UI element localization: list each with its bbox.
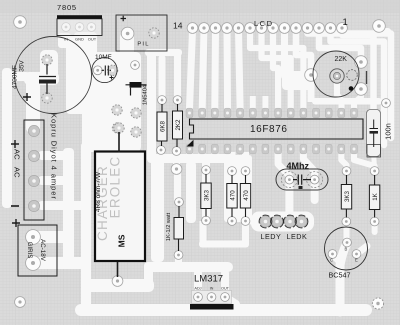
diode LED3 outline bbox=[284, 215, 297, 228]
svg-text:IN: IN bbox=[210, 287, 214, 291]
wire: LCD pin 5 gamma to pot bbox=[296, 30, 311, 74]
wire: riser to BC547 bbox=[340, 244, 347, 313]
wire: crystal right pad down bbox=[311, 182, 319, 200]
regulator 7805 pad IN bbox=[62, 23, 71, 32]
wire: horizontal y=244 bbox=[199, 241, 249, 248]
wire: BC547 collector branch bbox=[333, 255, 340, 262]
capacitor 4700MF pad top bbox=[42, 55, 52, 65]
wire: vertical right of 4R8 box bbox=[151, 155, 164, 262]
svg-text:PIL: PIL bbox=[137, 42, 149, 48]
wire: LCD pin 8 nested corner bbox=[262, 30, 291, 108]
resistor 4R8 top lead bbox=[118, 132, 120, 153]
regulator 7805 pad GND bbox=[75, 23, 84, 32]
resistor 2K2 outline bbox=[173, 111, 183, 139]
wire: LCD pin 2 gamma bbox=[331, 30, 385, 145]
svg-text:Kopru Diyot 4 amper: Kopru Diyot 4 amper bbox=[50, 113, 59, 200]
svg-text:4700MF: 4700MF bbox=[12, 65, 19, 89]
wire: LCD pin 14 down to IC pin bbox=[190, 30, 193, 108]
connector GIRIS box outline bbox=[18, 225, 57, 276]
IC 16F876 outline with notch bbox=[190, 119, 364, 139]
capacitor 10MF plus mark bbox=[110, 76, 114, 80]
node: lone pad top-left bbox=[14, 16, 27, 29]
connector LCD pads pin14..pin1 bbox=[187, 23, 347, 34]
wire: LED row link 470b bbox=[248, 218, 263, 225]
wire: crystal left pad down bbox=[285, 182, 293, 213]
diode LED1 outline bbox=[259, 215, 272, 228]
resistor 2K2 leads bbox=[176, 104, 179, 147]
potentiometer 22K index dot bbox=[349, 86, 354, 91]
wire: IC pin stubs down to band bbox=[186, 149, 193, 160]
wire: IC pin 22 stub bbox=[262, 96, 268, 110]
transistor BC547 outline bbox=[325, 227, 368, 270]
connector GIRIS pad 1 bbox=[26, 230, 41, 245]
wire: IC pin to crystal right bbox=[303, 151, 314, 177]
wire: 470a feed bbox=[229, 152, 236, 171]
svg-text:6K8: 6K8 bbox=[160, 120, 167, 132]
diode LED2 pad bbox=[271, 216, 282, 227]
resistor 1K outline bbox=[369, 185, 379, 210]
svg-text:35V: 35V bbox=[19, 60, 26, 72]
wire: bus66 to GIRIS pad2 bbox=[28, 257, 86, 269]
resistor 470a pad bottom bbox=[228, 217, 237, 226]
resistor 3K3a leads bbox=[205, 174, 207, 217]
wire: 3K3a bottom down bbox=[200, 221, 207, 244]
capacitor 100n bottom pad box bbox=[367, 145, 381, 158]
svg-text:1: 1 bbox=[343, 17, 348, 28]
wire: 1K bottom stub bbox=[372, 221, 378, 232]
diode LED2 outline bbox=[271, 215, 284, 228]
svg-text:2K2: 2K2 bbox=[175, 119, 182, 131]
svg-text:AC: AC bbox=[13, 167, 22, 178]
potentiometer 22K wiper ring bbox=[330, 69, 344, 83]
wire: LCD pin 12 down bbox=[211, 30, 219, 108]
resistor 3K3b outline bbox=[341, 185, 351, 210]
wire: 1K-1/2watt bottom link bbox=[175, 255, 182, 267]
wire: right corner pad down right edge bbox=[379, 26, 388, 31]
wire: LCD pin 9 nested corner bbox=[250, 30, 303, 108]
svg-text:OUT: OUT bbox=[221, 287, 230, 291]
wire: horizontal under pot bbox=[312, 98, 382, 105]
resistor 470b pad bottom bbox=[241, 217, 250, 226]
svg-text:4Mhz: 4Mhz bbox=[287, 161, 310, 171]
svg-text:1K-1/2 watt: 1K-1/2 watt bbox=[166, 212, 172, 241]
wire: AC bus x=66 bbox=[63, 148, 74, 264]
resistor 2K2 pad bottom bbox=[172, 147, 181, 156]
wire: LED pair link bbox=[280, 218, 289, 225]
wire: bridge pad stub row 4 bbox=[38, 201, 88, 210]
svg-text:100n: 100n bbox=[384, 123, 393, 140]
node: lone pad bottom-left bbox=[15, 297, 26, 308]
wire: LCD pin 6 to pot band bbox=[281, 30, 288, 76]
svg-text:GND: GND bbox=[75, 37, 84, 42]
node: lone pad bottom-right bbox=[372, 298, 383, 309]
svg-text:EROLEC: EROLEC bbox=[108, 156, 123, 219]
svg-text:OUT: OUT bbox=[88, 37, 97, 42]
crystal 4Mhz pad right bbox=[310, 175, 319, 184]
wire: bus x=81 bbox=[81, 142, 91, 314]
node: pour pad C bbox=[131, 108, 141, 118]
wire: vertical trace inside big cap circle bbox=[66, 36, 91, 114]
resistor 6K8 leads bbox=[161, 104, 164, 146]
wire: 100n bottom to 1K top bbox=[374, 154, 375, 170]
wire: IC pin 23 stub bbox=[250, 96, 256, 110]
wire: pot wiper to IC bbox=[337, 80, 342, 108]
wire: LCD pin 13 down bbox=[202, 30, 204, 108]
wire: L-arm vertical down to bridge + bbox=[26, 78, 40, 133]
svg-text:14: 14 bbox=[173, 21, 183, 31]
wire: top connector to resistor feeds bbox=[145, 49, 182, 56]
resistor 1K-1/2watt outline bbox=[174, 218, 184, 240]
wire: power pour right of big cap bbox=[82, 52, 141, 152]
regulator 7805 pad OUT bbox=[87, 23, 96, 32]
svg-text:LM317: LM317 bbox=[194, 274, 223, 285]
svg-text:AC-18V: AC-18V bbox=[39, 239, 46, 262]
wire: band into pot left pad bbox=[282, 71, 313, 90]
capacitor 4700MF circle outline bbox=[15, 37, 92, 114]
svg-text:LEDK: LEDK bbox=[287, 232, 308, 241]
svg-text:IN: IN bbox=[64, 37, 68, 42]
wire: white band behind LEDs bbox=[251, 212, 314, 232]
crystal 4Mhz pad rings bbox=[281, 172, 297, 188]
wire: 470b feed bbox=[242, 152, 249, 171]
battery PIL box outline bbox=[116, 15, 167, 51]
wire: horizontal band to LM317 area bbox=[144, 262, 233, 272]
wire: L-arm horizontal to cap bbox=[24, 72, 59, 85]
wire: bus52 to GIRIS pad1 bbox=[26, 231, 74, 243]
svg-text:B: B bbox=[345, 247, 348, 252]
crystal 4Mhz pad left bbox=[285, 175, 294, 184]
resistor 2K2 pad top bbox=[173, 96, 182, 105]
resistor 6K8 pad top bbox=[158, 96, 167, 105]
connector GIRIS pad 2 bbox=[26, 256, 41, 271]
resistor 3K3b pad top bbox=[342, 167, 351, 176]
svg-text:4R8 ohm-7/W: 4R8 ohm-7/W bbox=[95, 171, 102, 212]
wire: 470b bottom down bbox=[242, 224, 249, 244]
wire: PIL pad down bbox=[120, 33, 134, 65]
battery PIL pad - bbox=[149, 28, 159, 38]
potentiometer 22K pad bottom-right bbox=[355, 83, 368, 96]
diode LED1 pad bbox=[260, 216, 271, 227]
left edge plus mark bbox=[11, 140, 19, 148]
svg-text:MS: MS bbox=[117, 234, 127, 247]
wire: band to 3K3a bbox=[203, 158, 210, 169]
resistor 470b outline bbox=[240, 184, 250, 209]
capacitor 100n pad bottom bbox=[369, 147, 378, 156]
node: pour pad D bbox=[112, 123, 122, 133]
capacitor 10MF symbol bbox=[102, 66, 112, 76]
svg-text:10MF: 10MF bbox=[95, 54, 112, 61]
svg-text:BC547: BC547 bbox=[329, 271, 351, 280]
resistor 3K3a outline bbox=[201, 183, 211, 209]
wire: LCD pin 4 gamma bbox=[308, 30, 392, 138]
bridge rectifier pads bbox=[28, 125, 39, 136]
capacitor 4700MF pad bottom bbox=[42, 93, 52, 103]
node: pour pad E bbox=[131, 127, 141, 137]
capacitor 100n pad top bbox=[369, 112, 378, 121]
IC 16F876 pin1 triangle bbox=[187, 140, 194, 147]
resistor 470b pad top bbox=[241, 167, 250, 176]
wire: LCD pin 7 nested corner bbox=[273, 30, 278, 108]
resistor 3K3a pad bottom bbox=[202, 216, 211, 225]
resistor 1K pad top bbox=[370, 167, 379, 176]
resistor 470a pad top bbox=[228, 167, 237, 176]
transistor BC547 pad B bbox=[343, 238, 352, 247]
regulator LM317 pads bbox=[192, 291, 232, 304]
IC 16F876 top row pads pins 28..15 bbox=[186, 108, 357, 118]
node: pour pad B bbox=[112, 105, 122, 115]
wire: 7805 GND/OUT pads down bbox=[74, 32, 97, 59]
transistor BC547 pad E bbox=[352, 250, 361, 259]
svg-text:22K: 22K bbox=[335, 56, 348, 63]
potentiometer 22K pad top-right bbox=[355, 56, 368, 69]
wire: vertical behind 3K3a bbox=[202, 158, 210, 221]
wire: bridge pad stub row 3 bbox=[38, 176, 72, 185]
wire: pot left pad down bbox=[308, 74, 315, 102]
wire: LCD pin 11 down bbox=[224, 30, 232, 108]
svg-text:GIRIS: GIRIS bbox=[26, 242, 33, 259]
diode LED3 pad bbox=[284, 216, 295, 227]
resistor 1K leads bbox=[374, 175, 376, 218]
resistor 4R8 bottom lead bbox=[117, 262, 119, 277]
resistor 470b leads bbox=[245, 175, 247, 217]
resistor 4R8 pad top bbox=[114, 123, 124, 133]
battery PIL plus mark bbox=[121, 16, 127, 21]
crystal 4Mhz outline bbox=[276, 169, 328, 190]
diode 1N5404 body bbox=[130, 82, 142, 88]
IC 16F876 bottom row pads pins 1..14 bbox=[186, 144, 357, 154]
wire: LCD pin 1 gamma to 100n bbox=[342, 30, 374, 112]
capacitor 10MF pad left bbox=[93, 66, 102, 75]
wire: left edge to L-arm bbox=[4, 72, 30, 81]
regulator LM317 tab bar bbox=[190, 304, 234, 310]
wire: band to pad 176 bbox=[173, 158, 180, 169]
capacitor 4700MF symbol bbox=[39, 64, 56, 77]
potentiometer 22K side mark bbox=[366, 71, 368, 84]
capacitor 10MF circle outline bbox=[92, 57, 117, 82]
diode LED4 pad bbox=[296, 216, 307, 227]
node: pad 176 bbox=[171, 164, 182, 175]
potentiometer 22K pad left bbox=[305, 69, 318, 82]
resistor 3K3b leads bbox=[345, 175, 347, 218]
svg-text:1K: 1K bbox=[372, 192, 379, 200]
resistor 3K3b pad bottom bbox=[342, 217, 351, 226]
capacitor 10MF pad right bbox=[107, 65, 117, 75]
capacitor 4700MF plus mark bbox=[23, 93, 31, 101]
wire: 7805 IN pad down bbox=[58, 33, 71, 48]
left edge minus mark bbox=[11, 205, 19, 207]
bottom-left plus mark bbox=[12, 219, 20, 227]
wire: bridge pad stub row 2 bbox=[38, 151, 74, 160]
wire: pot pad to IC bbox=[354, 89, 361, 108]
resistor 470a outline bbox=[227, 184, 237, 209]
wire: wide vertical behind 470 pair bbox=[224, 155, 252, 222]
svg-text:470: 470 bbox=[230, 190, 237, 201]
resistor 6K8 pad bottom bbox=[157, 146, 166, 155]
capacitor 100n outline bbox=[367, 110, 381, 157]
svg-text:3K3: 3K3 bbox=[204, 189, 211, 201]
transistor BC547 pad C bbox=[328, 250, 337, 259]
svg-text:ADJ: ADJ bbox=[194, 287, 201, 291]
svg-text:LEDY: LEDY bbox=[261, 232, 282, 241]
wire: 2K2 feed up bbox=[174, 52, 181, 100]
wire: bottom band across board bbox=[81, 304, 366, 316]
wire: middle vertical bus x=151 bbox=[147, 52, 156, 162]
wire: left edge vertical trace bbox=[2, 68, 12, 208]
svg-text:16F876: 16F876 bbox=[250, 124, 288, 135]
bridge rectifier box outline bbox=[24, 120, 44, 220]
wire: LCD pin 3 gamma to pot pad bbox=[319, 30, 361, 61]
crystal 4Mhz symbol bbox=[293, 175, 311, 185]
resistor 1K-1/2watt pad bottom bbox=[174, 251, 183, 260]
wire: vertical x=190 bbox=[186, 161, 196, 223]
wire: horizontal band y=158 bbox=[147, 154, 233, 163]
diode 1N5404 leads bbox=[126, 85, 147, 96]
node: pad right of pot bbox=[382, 99, 391, 108]
wire: 3K3b bottom to BC547 base bbox=[344, 221, 350, 241]
regulator 7805 body outline bbox=[57, 19, 102, 36]
svg-text:3K3: 3K3 bbox=[344, 190, 351, 202]
wire: 6K8 feed up bbox=[159, 55, 166, 100]
resistor 6K8 outline bbox=[157, 112, 167, 141]
resistor 1K-1/2watt leads bbox=[178, 206, 181, 251]
wire: LM317 feeder 1 bbox=[194, 270, 202, 292]
resistor 3K3a pad top bbox=[202, 166, 211, 175]
wire: BC547 emitter branch bbox=[357, 246, 368, 254]
potentiometer 22K small circle bbox=[347, 70, 358, 81]
potentiometer 22K circle outline bbox=[313, 51, 359, 97]
resistor 4R8 pad bottom bbox=[112, 276, 123, 287]
wire: LM317 feeder 2 bbox=[221, 270, 229, 292]
wire: IC pin to 3K3b bbox=[341, 151, 346, 170]
wire: white behind 4700MF top pad bbox=[40, 50, 58, 78]
wire: 1K-1/2watt top link bbox=[174, 169, 181, 202]
svg-text:1N5404: 1N5404 bbox=[143, 84, 149, 105]
wire: step up at x=148 bbox=[144, 262, 153, 291]
resistor 4R8 box outline bbox=[95, 152, 145, 262]
wire: LM317 out to bottom run bbox=[225, 297, 236, 304]
svg-text:E: E bbox=[355, 258, 358, 263]
wire: IC pin to 1K bbox=[354, 151, 375, 170]
svg-text:7805: 7805 bbox=[57, 3, 77, 12]
svg-text:470: 470 bbox=[243, 190, 250, 201]
node: pour pad A bbox=[131, 61, 140, 70]
svg-text:AC: AC bbox=[13, 149, 22, 160]
svg-text:C: C bbox=[330, 258, 333, 263]
wire: IC pin to crystal left bbox=[278, 151, 289, 176]
battery PIL pad + bbox=[121, 27, 134, 40]
wire: LCD pin 10 down bbox=[239, 30, 241, 108]
resistor 1K-1/2watt pad top bbox=[175, 198, 184, 207]
resistor 1K pad bottom bbox=[370, 217, 379, 226]
node: lone pad top-right bbox=[373, 20, 386, 33]
diode LED4 outline bbox=[295, 215, 308, 228]
resistor 470a leads bbox=[231, 175, 233, 217]
capacitor 100n symbol bbox=[370, 120, 379, 148]
wire: bottom-left horizontal run bbox=[81, 279, 154, 292]
regulator 7805 tab bar bbox=[57, 15, 102, 19]
svg-text:LCD: LCD bbox=[254, 19, 274, 28]
